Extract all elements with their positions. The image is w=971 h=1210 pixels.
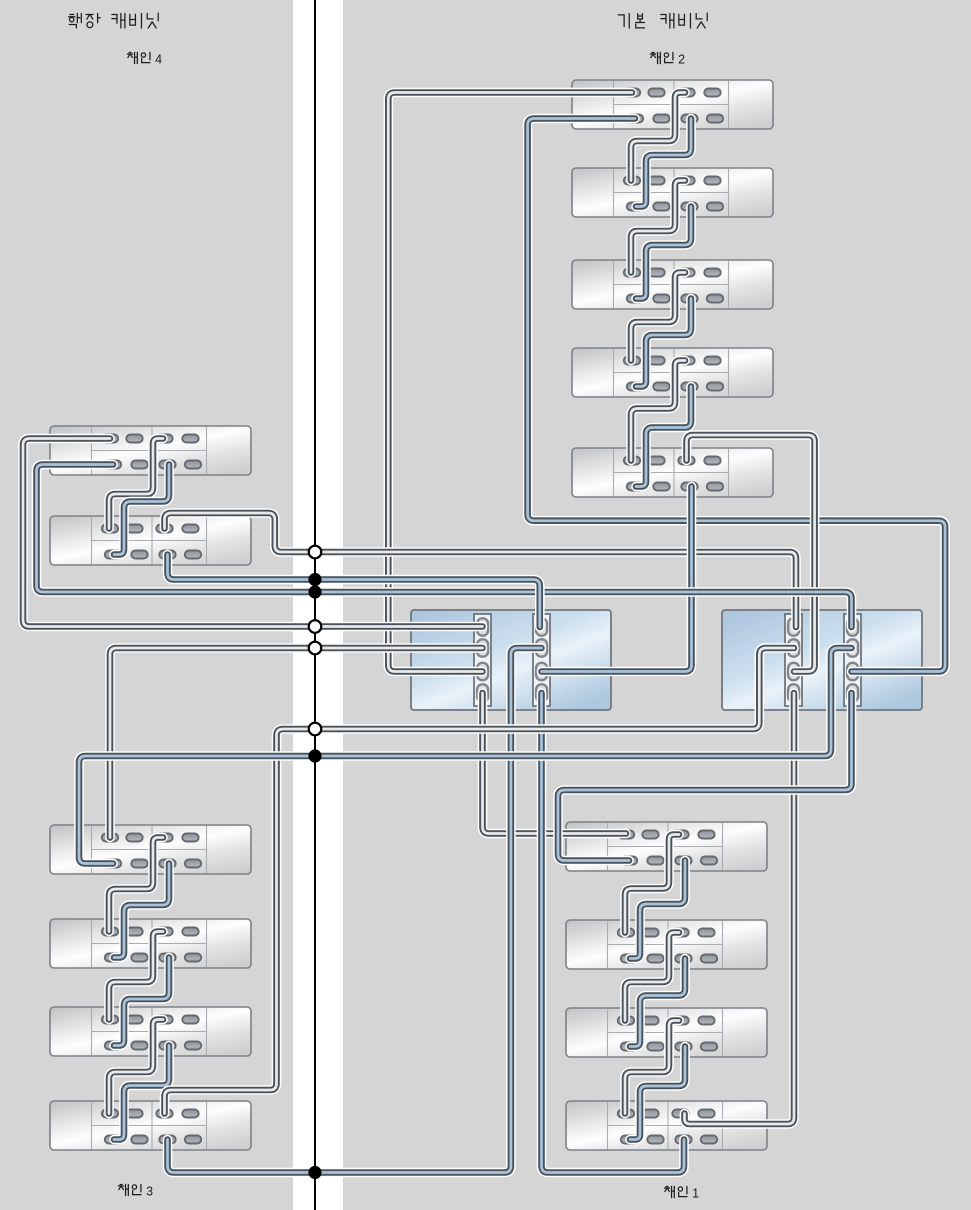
disk shelf chain4-2 xyxy=(50,516,251,565)
svg-text:3: 3 xyxy=(146,1185,153,1199)
junction node (filled) at boundary y=1172.5 xyxy=(308,1166,321,1179)
SAS cable chain3 shelf1 r1p1 to controller1 slot1-p2 xyxy=(110,648,483,838)
SAS cable chain2 shelf5 r1p3 to controller2 slot1-p3 xyxy=(687,435,815,672)
SAS cable chain3 shelf1 r1p3 to shelf2 r1p1 xyxy=(109,838,163,932)
disk shelf chain3-4 xyxy=(50,1101,251,1150)
disk shelf chain1-1 xyxy=(566,822,767,871)
SAS cable chain1 shelf1 r2p3 to shelf2 r2p1 xyxy=(630,861,685,959)
label: chain 3 xyxy=(118,1184,153,1198)
base cabinet panel (right) xyxy=(343,0,971,1210)
disk shelf chain2-5 xyxy=(572,448,773,497)
SAS cable chain3 shelf3 r2p3 to shelf4 r2p1 xyxy=(114,1046,169,1140)
disk shelf chain2-3 xyxy=(572,260,773,309)
disk shelf chain2-1 xyxy=(572,80,773,129)
SAS cable chain2 shelf2 r2p3 to shelf3 r2p1 xyxy=(636,207,691,299)
SAS cable chain4 shelf1 r2p3 to shelf2 r2p1 xyxy=(114,465,169,555)
title: expansion cabinet (hwakjang cabinet) xyxy=(69,13,159,28)
disk shelf chain2-2 xyxy=(572,168,773,217)
SAS cable chain1 shelf2 r2p3 to shelf3 r2p1 xyxy=(630,959,685,1047)
SAS cable chain1 shelf2 r1p3 to shelf3 r1p1 xyxy=(625,933,679,1021)
SAS cable chain1 shelf1 r1p3 to shelf2 r1p1 xyxy=(625,835,679,933)
SAS cable chain2 shelf3 r2p3 to shelf4 r2p1 xyxy=(636,299,691,387)
svg-text:1: 1 xyxy=(692,1187,699,1201)
SAS cable chain2 shelf5 r2p3 to controller1 slot2-p3 xyxy=(542,487,692,672)
SAS cable chain4 shelf1 r2p1 to controller2 slot2-p1 xyxy=(37,465,852,628)
disk shelf chain3-2 xyxy=(50,919,251,968)
controller 1 (left) xyxy=(411,610,611,710)
title: base cabinet (gibon cabinet) xyxy=(618,13,707,28)
SAS cable chain4 shelf2 r1p3 to controller2 slot1-p1 xyxy=(165,513,797,627)
junction node (filled) at boundary y=579.5 xyxy=(308,573,321,586)
SAS cable chain2 shelf1 r1p3 to shelf2 r1p1 xyxy=(631,93,685,181)
junction node (filled) at boundary y=756 xyxy=(308,749,321,762)
SAS cable chain2 shelf1 r2p3 to shelf2 r2p1 xyxy=(636,119,691,207)
SAS cable chain3 shelf1 r2p3 to shelf2 r2p1 xyxy=(114,864,169,958)
SAS cable chain2 shelf2 r1p3 to shelf3 r1p1 xyxy=(631,181,685,273)
SAS cable controller2 slot1-p4 to chain1 shelf4 r1p3 xyxy=(685,693,795,1124)
SAS cable chain1 shelf3 r2p3 to shelf4 r2p1 xyxy=(630,1047,685,1140)
SAS cable controller1 slot1-p3 to chain2 shelf1 r1p1 xyxy=(388,93,632,672)
SAS cable chain3 shelf1 r2p1 to controller2 slot2-p2 xyxy=(79,648,852,864)
crossover node (open) at boundary y=626.5 xyxy=(309,620,322,633)
crossover node (open) at boundary y=552 xyxy=(309,546,322,559)
cabinet boundary line xyxy=(314,0,316,1210)
disk shelf chain3-3 xyxy=(50,1007,251,1056)
label: chain 1 xyxy=(664,1186,699,1200)
SAS cable controller2 slot2-p3 to chain2 shelf1 r2p1 xyxy=(528,119,946,672)
disk shelf chain4-1 xyxy=(50,426,251,475)
SAS cable chain4 shelf2 r2p3 to controller1 slot2-p1 xyxy=(168,555,540,628)
crossover node (open) at boundary y=648 xyxy=(309,642,322,655)
SAS cable chain4 shelf1 r1p1 to controller1 slot1-p1 xyxy=(23,439,483,627)
SAS cable chain2 shelf4 r1p3 to shelf5 r1p1 xyxy=(631,361,685,461)
SAS cable chain3 shelf4 r1p3 to controller2 slot1-p2 xyxy=(165,648,795,1114)
SAS cable chain4 shelf1 r1p3 to shelf2 r1p1 xyxy=(109,439,163,529)
SAS cable chain2 shelf3 r1p3 to shelf4 r1p1 xyxy=(631,273,685,361)
SAS cable chain3 shelf2 r2p3 to shelf3 r2p1 xyxy=(114,958,169,1046)
SAS cable controller2 slot2-p4 to chain1 shelf1 r2p1 xyxy=(558,693,852,861)
svg-text:2: 2 xyxy=(678,53,685,67)
SAS cable controller1 slot2-p4 to chain1 shelf4 r2p3 xyxy=(542,693,685,1173)
svg-text:4: 4 xyxy=(155,53,162,67)
SAS cable controller1 slot1-p4 to chain1 shelf1 r1p1 xyxy=(483,693,627,834)
label: chain 4 xyxy=(127,52,162,66)
label: chain 2 xyxy=(650,52,685,66)
disk shelf chain2-4 xyxy=(572,348,773,397)
SAS cable chain3 shelf2 r1p3 to shelf3 r1p1 xyxy=(109,932,163,1020)
SAS cable chain3 shelf3 r1p3 to shelf4 r1p1 xyxy=(109,1020,163,1114)
crossover node (open) at boundary y=729 xyxy=(309,723,322,736)
disk shelf chain3-1 xyxy=(50,825,251,874)
SAS cable chain2 shelf4 r2p3 to shelf5 r2p1 xyxy=(636,387,691,487)
disk shelf chain1-4 xyxy=(566,1101,767,1150)
disk shelf chain1-2 xyxy=(566,920,767,969)
junction node (filled) at boundary y=592 xyxy=(308,585,321,598)
SAS cable chain3 shelf4 r2p3 to controller1 slot2-p2 xyxy=(168,648,542,1173)
SAS cable chain1 shelf3 r1p3 to shelf4 r1p1 xyxy=(625,1021,679,1114)
controller 2 (right) xyxy=(722,610,922,710)
expansion cabinet panel (left) xyxy=(0,0,293,1210)
disk shelf chain1-3 xyxy=(566,1008,767,1057)
